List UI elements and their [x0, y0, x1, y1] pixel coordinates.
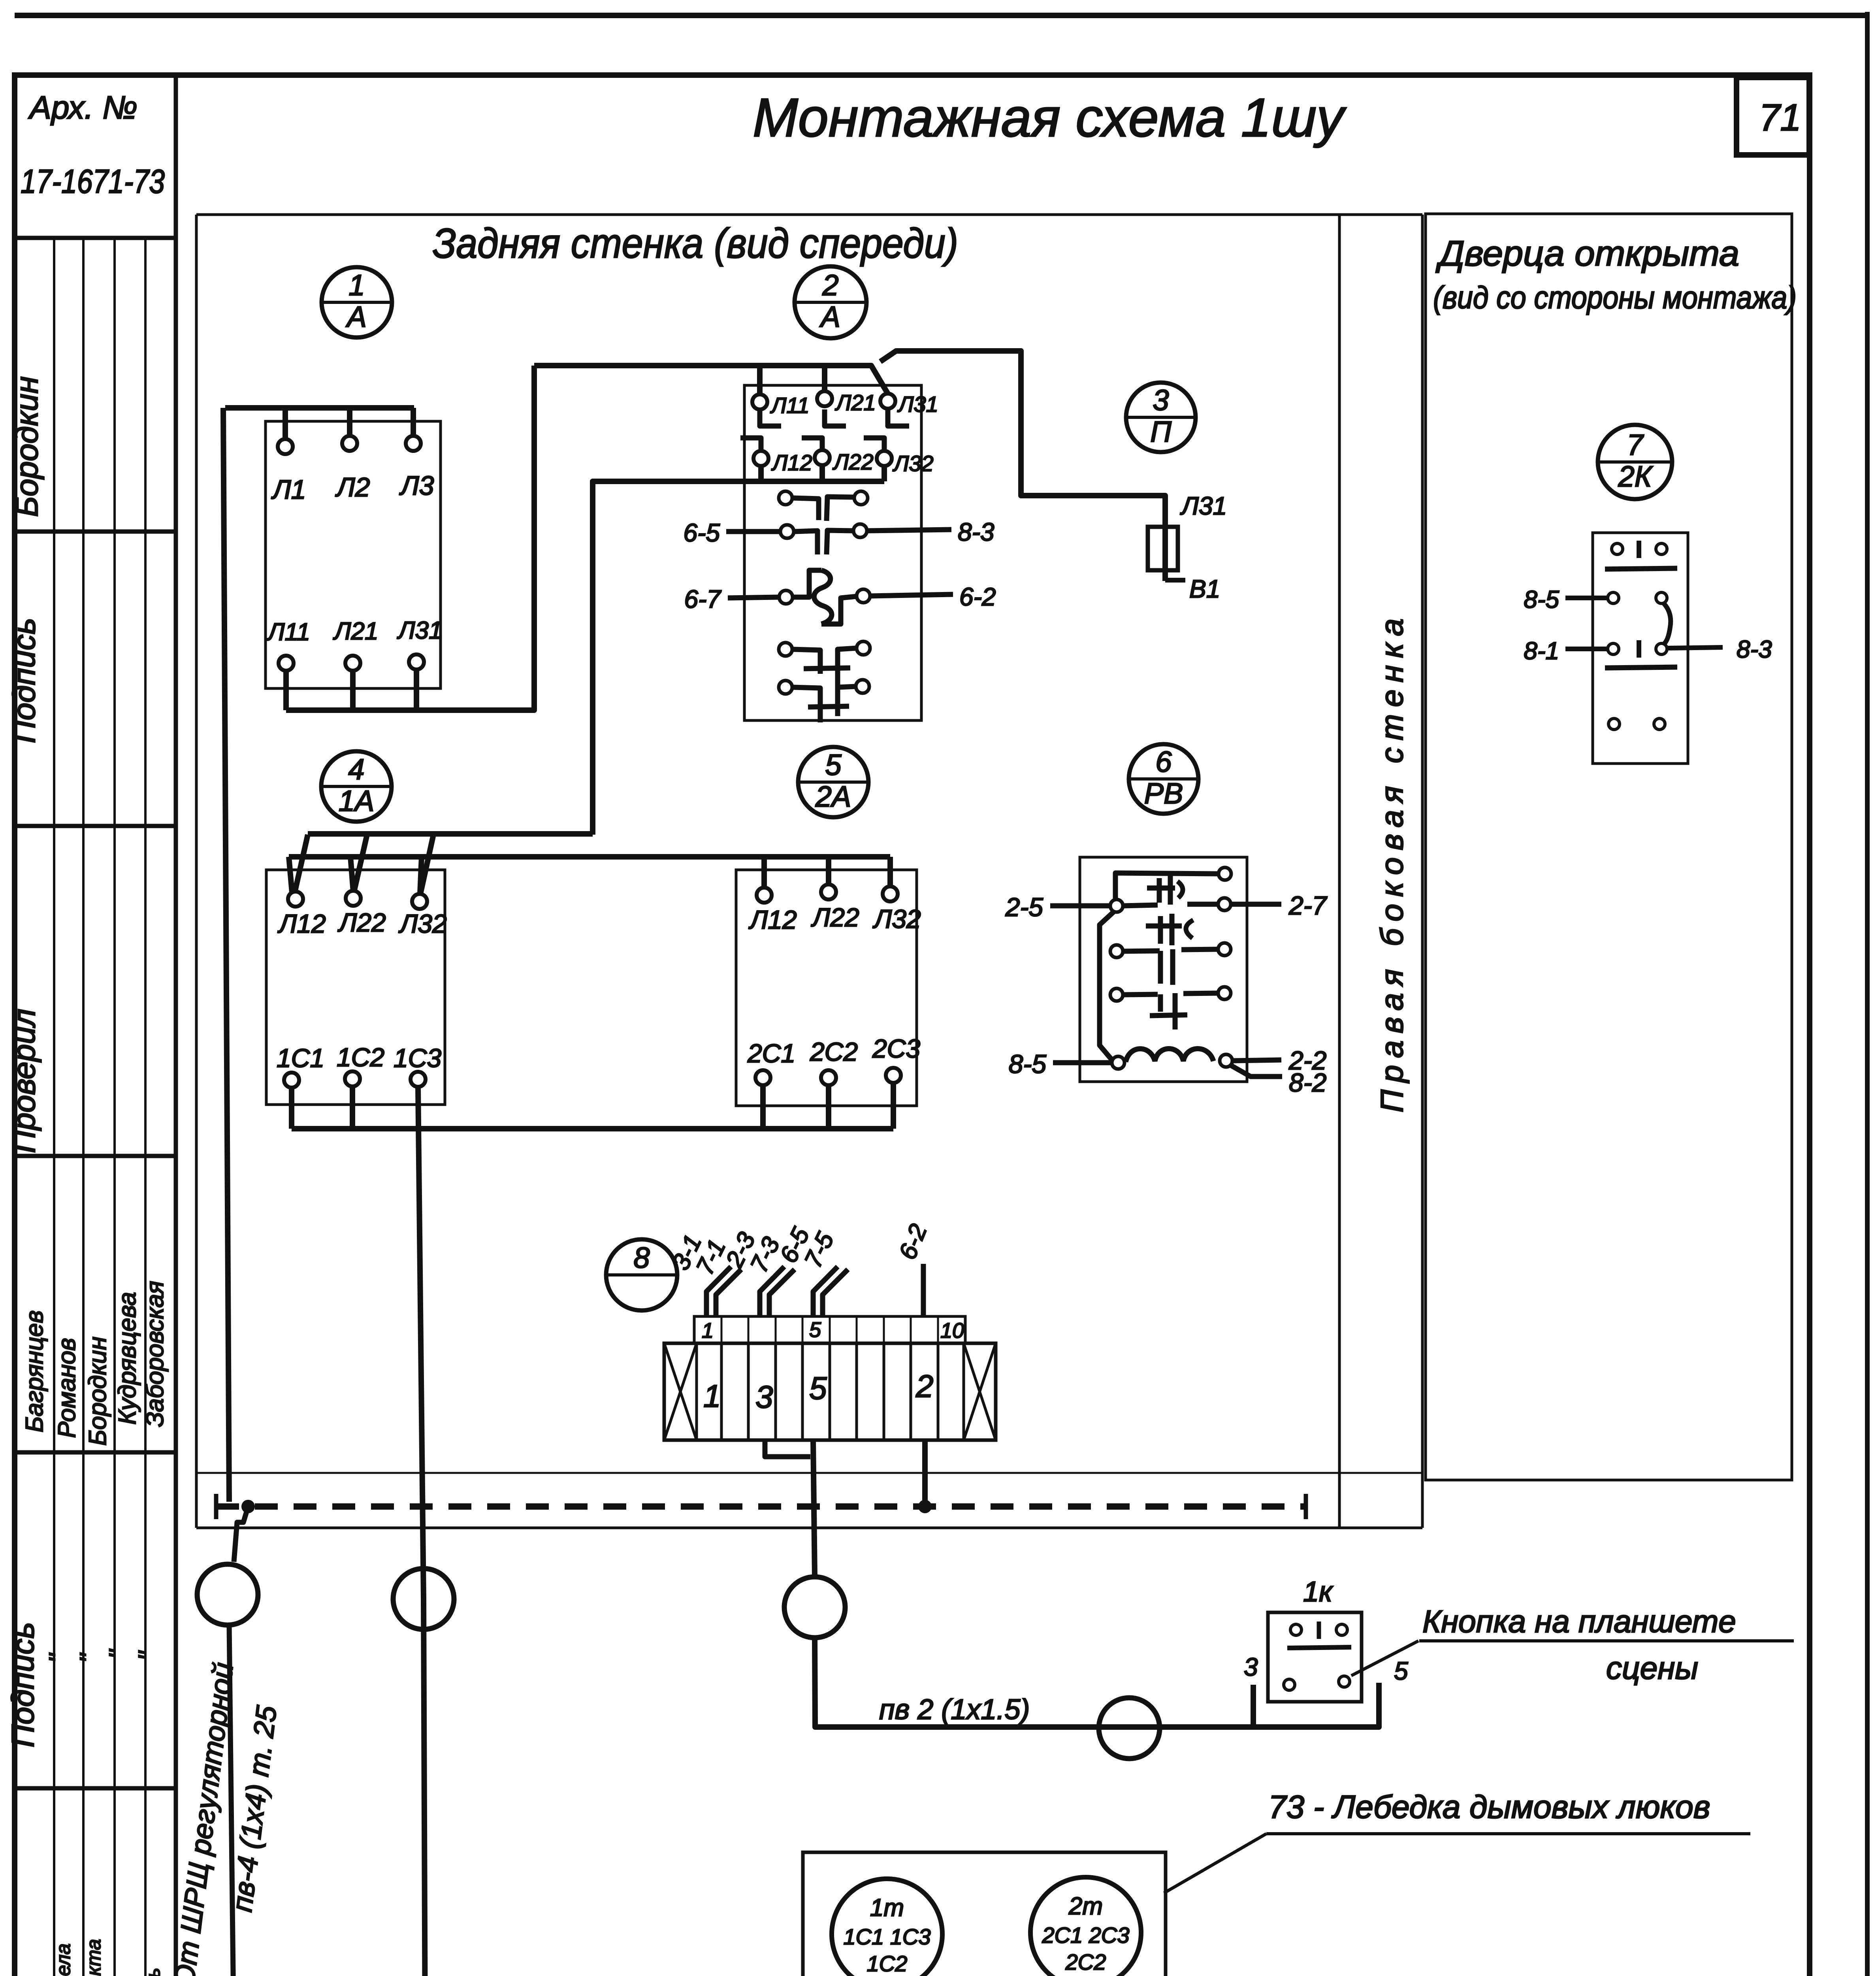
svg-text:3: 3 [755, 1379, 773, 1414]
terminal 2С2 [821, 1070, 836, 1085]
svg-text:2К: 2К [1618, 460, 1654, 493]
terminal 1С1 [284, 1073, 299, 1088]
sidebar column lines [53, 238, 55, 1788]
terminal pb TR [1219, 867, 1231, 880]
svg-text:Арх. №: Арх. № [28, 90, 137, 126]
svg-text:1: 1 [348, 269, 365, 302]
svg-text:2С3: 2С3 [872, 1034, 920, 1063]
junction dot left [241, 1500, 255, 1513]
wire lead 8-3 2K [1667, 647, 1723, 648]
svg-text:71: 71 [1759, 96, 1801, 139]
terminal Л12 c4 [288, 892, 303, 907]
svg-text:2-5: 2-5 [1005, 892, 1043, 922]
svg-text:Л2: Л2 [335, 472, 370, 502]
2K top contact pair [1612, 543, 1623, 554]
wire: button bracket [1253, 1683, 1379, 1727]
cable marker circle pv2a [784, 1577, 845, 1638]
wire: incoming supply cable [229, 1625, 234, 1976]
wire: comp4 bottom stubs [289, 1088, 294, 1129]
svg-text:": " [74, 1653, 104, 1663]
terminal block strip [694, 1316, 965, 1343]
terminal Л31 [409, 654, 424, 669]
wire: dot jog to cable circle [234, 1507, 248, 1562]
svg-text:Бородкин: Бородкин [84, 1337, 111, 1446]
wire: comp2 to fuse B1 [880, 351, 1165, 527]
svg-text:Подпись: Подпись [5, 1622, 40, 1747]
wires into cell 5 [813, 1267, 838, 1316]
svg-text:1С2: 1С2 [867, 1951, 908, 1976]
svg-text:Л1: Л1 [271, 475, 306, 505]
svg-text:1: 1 [702, 1319, 714, 1342]
svg-text:Л12: Л12 [771, 450, 812, 475]
svg-text:73 - Лебедка дымовых люков: 73 - Лебедка дымовых люков [1268, 1789, 1710, 1825]
wire: bus comp1 to comp2 [534, 366, 888, 394]
terminal block dividers [721, 1316, 723, 1343]
leader to кнопка text [1351, 1641, 1418, 1676]
cable marker circle mid [393, 1569, 454, 1629]
wire: bus B comp4-comp5 [289, 854, 890, 860]
node 1/A position circle [322, 267, 392, 338]
terminal Л11 [279, 656, 294, 671]
svg-text:3: 3 [1244, 1653, 1258, 1681]
pb row4 [1110, 988, 1123, 1001]
terminal 2С3 [886, 1068, 901, 1083]
terminal Л12 comp2 [753, 451, 768, 466]
wires into cell 1 [706, 1267, 731, 1316]
svg-text:3: 3 [1153, 384, 1169, 417]
aux contact row1 comp2 [779, 491, 792, 505]
sidebar right edge [174, 75, 178, 1976]
svg-text:Л3: Л3 [399, 471, 434, 501]
aux contact row4 comp2 [779, 643, 792, 656]
fuse B1 [1148, 527, 1178, 570]
terminal Л32 c5 [883, 886, 898, 901]
svg-text:4: 4 [348, 753, 364, 786]
svg-text:2А: 2А [815, 780, 851, 813]
svg-text:2С2: 2С2 [810, 1037, 858, 1066]
leader 73 [1164, 1834, 1266, 1893]
svg-text:Л31: Л31 [1180, 492, 1227, 520]
svg-text:2: 2 [822, 269, 838, 302]
svg-text:Монтажная схема 1шу: Монтажная схема 1шу [753, 87, 1347, 148]
svg-text:17-1671-73: 17-1671-73 [21, 163, 165, 200]
wire: pb left bend [1100, 911, 1114, 1061]
cable marker circle left [197, 1564, 258, 1625]
svg-text:7: 7 [1627, 428, 1644, 461]
junction dot right [918, 1500, 932, 1513]
wire lead 6-5 [726, 529, 780, 534]
svg-text:1С2: 1С2 [337, 1043, 384, 1072]
svg-text:": " [43, 1653, 73, 1663]
contactor A2 box [744, 385, 921, 720]
svg-text:Проверил: Проверил [6, 1009, 41, 1153]
svg-text:сцены: сцены [1606, 1650, 1698, 1686]
svg-text:Гл. инж. отдела: Гл. инж. отдела [52, 1944, 74, 1976]
svg-text:Л21: Л21 [835, 390, 876, 415]
svg-text:Л12: Л12 [748, 905, 797, 934]
aux contact row5 comp2 [779, 681, 792, 694]
svg-text:Дверца открыта: Дверца открыта [1435, 234, 1739, 273]
svg-text:1С1 1С3: 1С1 1С3 [843, 1924, 930, 1949]
svg-text:8-3: 8-3 [1737, 636, 1772, 663]
svg-text:Л11: Л11 [266, 618, 310, 646]
node 8 position circle [606, 1239, 677, 1310]
terminal 2С1 [755, 1070, 770, 1085]
pb row2 leads [1050, 903, 1110, 909]
svg-text:Л31: Л31 [897, 392, 938, 417]
svg-text:": " [104, 1649, 133, 1659]
svg-text:В1: В1 [1189, 575, 1220, 603]
svg-text:А: А [345, 300, 366, 333]
svg-text:1С3: 1С3 [394, 1043, 441, 1073]
svg-text:8-1: 8-1 [1524, 637, 1559, 665]
terminal Л21 [345, 656, 360, 671]
svg-text:Заборовская: Заборовская [141, 1281, 169, 1427]
page number box [1737, 77, 1809, 155]
svg-text:Багрянцев: Багрянцев [21, 1310, 48, 1433]
wire: pv2 run [815, 1638, 1253, 1727]
svg-text:Подпись: Подпись [6, 618, 41, 743]
svg-text:Задняя стенка (вид спереди: Задняя стенка (вид спереди) [433, 220, 958, 267]
wire: left drop wire from comp1 [223, 408, 229, 1502]
svg-text:2: 2 [915, 1369, 934, 1404]
motor 1т [832, 1879, 942, 1976]
terminal Л1 [278, 439, 293, 454]
svg-text:8-3: 8-3 [958, 518, 995, 546]
terminal block X cells [695, 1343, 698, 1440]
svg-text:6: 6 [1155, 745, 1172, 778]
svg-text:10: 10 [940, 1319, 964, 1342]
svg-text:6-7: 6-7 [684, 585, 722, 613]
svg-text:8-2: 8-2 [1289, 1068, 1326, 1097]
terminal pb 2-7 [1218, 898, 1231, 911]
svg-text:Романов: Романов [53, 1338, 81, 1438]
svg-text:": " [133, 1650, 162, 1661]
wire: cell3 L-link [765, 1440, 810, 1457]
wire: comp1 bottom bus to riser [286, 366, 534, 710]
wire: pb top link [1115, 873, 1219, 900]
svg-text:5: 5 [825, 749, 842, 781]
schematic frame back wall [196, 213, 1422, 216]
wire: bus A to comp4 [308, 831, 593, 837]
terminal Л11 comp2 [752, 394, 767, 409]
svg-text:6-5: 6-5 [684, 519, 720, 547]
2K bottom holes [1609, 718, 1620, 730]
panel edge dashed line [216, 1503, 1306, 1510]
svg-text:Л32: Л32 [893, 451, 934, 476]
svg-text:1к: 1к [1303, 1576, 1334, 1608]
pb cap1 [1147, 886, 1175, 891]
wire: cell5 drop [813, 1440, 815, 1577]
svg-text:1А: 1А [339, 784, 375, 817]
node 2/A position circle [795, 266, 866, 338]
pb coil [1126, 1049, 1213, 1062]
svg-text:5: 5 [1394, 1657, 1408, 1685]
wire lead 8-3 [867, 530, 951, 531]
wire: comp1 bottom stubs [283, 671, 289, 710]
button 1k top contact [1290, 1624, 1302, 1635]
pb cap2 [1146, 924, 1182, 929]
svg-text:2С1: 2С1 [747, 1039, 795, 1068]
motor 2т [1030, 1877, 1141, 1976]
svg-text:Л21: Л21 [333, 618, 378, 645]
sidebar section borders [15, 236, 176, 240]
switch A1 box [266, 421, 441, 688]
svg-text:5: 5 [809, 1371, 827, 1406]
svg-text:А: А [819, 300, 840, 333]
wire: comp1 top bus [225, 405, 414, 411]
terminal Л22 comp2 [815, 450, 830, 465]
svg-text:2т: 2т [1068, 1893, 1103, 1920]
terminal 2K m1 [1608, 592, 1619, 603]
terminal Л31 comp2 [880, 394, 895, 409]
terminal Л22 c5 [821, 884, 836, 899]
terminal Л32 comp2 [877, 451, 892, 466]
relay 2K box [1593, 533, 1688, 764]
svg-text:Л22: Л22 [811, 903, 859, 932]
svg-text:Исполнитель: Исполнитель [142, 1968, 164, 1976]
contactor 2A box [736, 870, 917, 1106]
wire: comp2 output harness [758, 466, 764, 481]
svg-text:Гл.инж. проекта: Гл.инж. проекта [83, 1939, 105, 1976]
node 7/2К position circle [1598, 425, 1672, 499]
svg-text:Л11: Л11 [770, 393, 810, 418]
svg-text:П: П [1150, 415, 1172, 448]
svg-text:6-2: 6-2 [959, 583, 996, 611]
button 1k box [1268, 1612, 1362, 1702]
wire 2K curve [1663, 603, 1671, 645]
wire lead 6-7 [728, 597, 779, 598]
door frame [1426, 214, 1792, 1480]
terminal 2K m2 [1608, 643, 1619, 654]
svg-text:Л31: Л31 [397, 617, 442, 644]
contact knives comp2 [760, 409, 781, 426]
svg-text:Бородкин: Бородкин [9, 376, 44, 517]
svg-text:РВ: РВ [1144, 777, 1183, 810]
terminal pb 2-2 [1220, 1054, 1232, 1067]
terminal pb 8-5 [1112, 1056, 1124, 1069]
wire lead 8-1 [1565, 647, 1607, 651]
svg-text:Л32: Л32 [872, 904, 921, 933]
svg-text:2С2: 2С2 [1065, 1950, 1106, 1974]
wire into cell 9 [921, 1264, 926, 1316]
wires into cell 3 [760, 1267, 784, 1316]
wire: cell9 drop to panel edge [922, 1440, 928, 1507]
terminal Л22 c4 [346, 891, 361, 906]
node 4/1А position circle [321, 751, 392, 822]
svg-text:2-7: 2-7 [1288, 891, 1328, 920]
svg-text:8: 8 [633, 1241, 650, 1274]
wire lead 8-5 2K [1565, 596, 1610, 600]
terminal block body [664, 1343, 996, 1440]
node 3/П position circle [1126, 383, 1196, 452]
border scan right bar [1865, 12, 1870, 1976]
cable marker circle pv2b [1099, 1698, 1160, 1759]
terminal Л12 c5 [757, 888, 772, 903]
terminal Л21 comp2 [817, 391, 832, 406]
svg-text:2С1 2С3: 2С1 2С3 [1042, 1923, 1129, 1948]
svg-text:1т: 1т [870, 1894, 904, 1921]
svg-text:Л22: Л22 [337, 908, 386, 937]
terminal pb 2-5 [1110, 899, 1123, 912]
terminal Л2 [342, 436, 357, 451]
pb bottom leads [1053, 1060, 1112, 1065]
wire: comp5 bottom stubs [760, 1085, 766, 1129]
svg-text:Л12: Л12 [277, 909, 326, 938]
svg-text:1: 1 [703, 1378, 721, 1414]
border scan top bar [15, 13, 1870, 18]
svg-text:Кудрявцева: Кудрявцева [114, 1292, 141, 1425]
button 1k terminals [1284, 1679, 1295, 1690]
terminal Л32 c4 [412, 894, 427, 909]
wire: 1С3 long drop [418, 1087, 857, 1976]
pb row3 [1110, 945, 1123, 958]
svg-text:8-5: 8-5 [1524, 586, 1559, 613]
svg-text:8-5: 8-5 [1009, 1049, 1047, 1079]
svg-text:(вид со стороны монтажа): (вид со стороны монтажа) [1433, 280, 1797, 315]
svg-text:1С1: 1С1 [277, 1043, 324, 1073]
relay PB box [1080, 857, 1247, 1082]
wire: comp4/5 bottom bus [292, 1126, 893, 1131]
contactor 1A box [266, 870, 445, 1105]
svg-text:Л22: Л22 [833, 449, 874, 474]
svg-text:5: 5 [809, 1318, 821, 1342]
winch motor box [803, 1852, 1166, 1976]
svg-text:пв 2 (1х1.5): пв 2 (1х1.5) [879, 1694, 1030, 1725]
node 6/РВ position circle [1129, 744, 1198, 814]
terminal 1С2 [345, 1071, 360, 1086]
svg-text:Л32: Л32 [398, 909, 447, 938]
terminal Л3 [406, 436, 421, 451]
svg-text:Кнопка на планшете: Кнопка на планшете [1422, 1604, 1736, 1639]
wire lead 6-2 [870, 594, 953, 596]
terminal 1С3 [411, 1072, 426, 1087]
node 5/2А position circle [798, 747, 868, 817]
wire: bus A diagonals [295, 835, 308, 892]
wire: comp1 top stubs [283, 408, 288, 440]
